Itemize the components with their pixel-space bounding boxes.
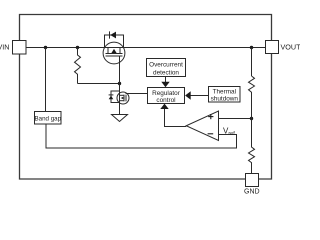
pin VOUT box bbox=[266, 41, 279, 54]
wire NMOS gate to regulator control bbox=[126, 93, 148, 95]
band gap box bbox=[35, 112, 62, 125]
wire gate node down to shutdown NMOS bbox=[119, 84, 121, 93]
wire overcurrent to regulator control (arrow down) bbox=[161, 77, 169, 88]
svg-text:shutdown: shutdown bbox=[211, 96, 239, 103]
wire resistor bottom to gate node bbox=[78, 83, 120, 85]
node band gap tap on VIN rail bbox=[44, 46, 47, 49]
svg-text:control: control bbox=[156, 97, 175, 104]
wire NMOS source to ground bbox=[119, 104, 121, 115]
wire error amp output to regulator control (arrow up) bbox=[160, 104, 186, 127]
node VOUT divider tap bbox=[250, 46, 253, 49]
resistor gate pull-up bbox=[75, 48, 81, 84]
IC package boundary bbox=[20, 15, 272, 180]
svg-text:Thermal: Thermal bbox=[213, 89, 236, 96]
op-amp error amplifier bbox=[186, 111, 218, 141]
wire VIN rail down to band gap bbox=[45, 48, 47, 112]
block thermal shutdown bbox=[209, 87, 241, 103]
svg-text:Regulator: Regulator bbox=[152, 90, 181, 97]
resistor feedback upper R1 bbox=[249, 76, 255, 119]
diode body diode of shutdown NMOS bbox=[109, 91, 120, 103]
pin VIN box bbox=[13, 41, 27, 55]
wire VOUT node down bbox=[251, 48, 253, 77]
svg-text:GND: GND bbox=[244, 189, 260, 196]
svg-text:Overcurrent: Overcurrent bbox=[149, 61, 183, 68]
node resistor tap on VIN rail bbox=[76, 46, 79, 49]
resistor feedback lower R2 bbox=[249, 119, 255, 174]
wire band gap Vref to error amp inverting input bbox=[46, 124, 237, 148]
ground bbox=[112, 115, 128, 122]
block overcurrent detection bbox=[147, 59, 186, 77]
svg-text:VIN: VIN bbox=[0, 43, 10, 52]
transistor pass PMOS body bbox=[103, 42, 125, 64]
node feedback divider bbox=[250, 117, 253, 120]
wire thermal shutdown to regulator control (arrow left) bbox=[185, 91, 208, 99]
diode body diode of pass PMOS bbox=[105, 31, 124, 47]
svg-text:VOUT: VOUT bbox=[281, 43, 301, 52]
pin GND box bbox=[246, 174, 259, 187]
wire feedback node to error amp + input bbox=[219, 118, 252, 120]
svg-text:detection: detection bbox=[153, 69, 179, 76]
block regulator control bbox=[148, 88, 185, 105]
svg-text:Band gap: Band gap bbox=[35, 115, 62, 122]
wire pass transistor gate bbox=[119, 56, 121, 84]
transistor shutdown NMOS body bbox=[117, 92, 129, 104]
wire VIN rail across to VOUT bbox=[26, 47, 266, 49]
node gate junction bbox=[118, 82, 121, 85]
